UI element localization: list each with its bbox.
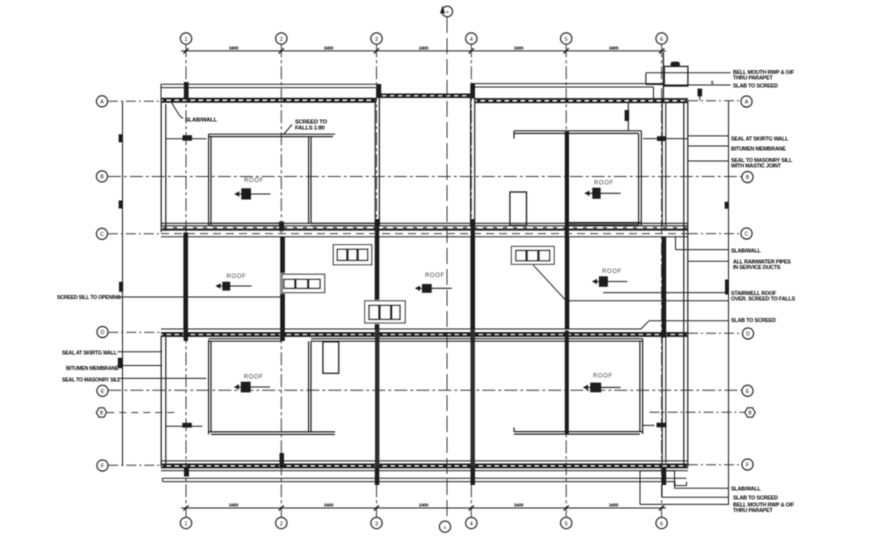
band D step diagonal [641, 321, 649, 329]
grid 2 stub at unit 1 kerb [279, 222, 284, 232]
leader RM1 [675, 237, 677, 250]
svg-text:SLAB/WALL: SLAB/WALL [731, 487, 762, 493]
grid 4 wall stub bottom [471, 468, 476, 485]
row F datum right [688, 464, 742, 466]
leader TR3 [688, 135, 729, 137]
svg-text:3400: 3400 [324, 45, 334, 51]
grid line 4 vertical [470, 44, 472, 517]
dimension tick [659, 48, 664, 53]
grid bubble 2 bottom [276, 517, 287, 528]
row A datum left [108, 100, 161, 102]
band F lower line [161, 470, 688, 472]
svg-text:SLAB TO SCREED: SLAB TO SCREED [733, 84, 778, 90]
leader TR5 [688, 160, 729, 162]
left witness tick [119, 134, 123, 142]
rooflight vent 3 [364, 300, 407, 324]
grid 3 wall stub band C [375, 219, 379, 238]
dimension tick [183, 48, 188, 53]
svg-text:ROOF: ROOF [602, 269, 622, 275]
grid 1 wall stub top [184, 82, 189, 98]
leader L2 [118, 351, 163, 353]
leader BR2 [661, 471, 663, 498]
parapet level marker [698, 89, 703, 97]
band C heavy line [161, 229, 688, 231]
row bubble B right [742, 171, 753, 182]
svg-text:B: B [100, 175, 104, 181]
row bubble C left [96, 228, 107, 239]
svg-text:3: 3 [375, 521, 378, 527]
top parapet right [471, 83, 664, 85]
grid 1 wall middle strip [183, 233, 188, 330]
row bubble B2 right (hex) [745, 408, 755, 417]
row bubble E right [742, 385, 753, 396]
dimension tick [469, 48, 474, 53]
bottom parapet right step [674, 482, 676, 486]
grid 2 wall stub band D [280, 330, 285, 342]
svg-text:SCREED SILL TO OPENING: SCREED SILL TO OPENING [57, 295, 121, 301]
note screed falls leader [284, 125, 293, 135]
unit 4 kerb top edge [209, 338, 282, 340]
unit 1 kerb right edge [308, 137, 310, 224]
grid bubble 5 bottom [561, 517, 572, 528]
rooflight vent 1 [332, 244, 373, 266]
projection leader upper [646, 72, 731, 74]
section marker A top [442, 6, 453, 17]
left witness tick [118, 358, 122, 369]
svg-text:2400: 2400 [419, 503, 429, 509]
roof edge band F [161, 463, 688, 465]
left witness tick [119, 282, 123, 292]
svg-text:SLAB TO SCREED: SLAB TO SCREED [731, 318, 776, 324]
leader RM2 [688, 260, 729, 262]
unit 4 kerb left edge [208, 340, 210, 435]
svg-text:2400: 2400 [419, 45, 429, 51]
right witness tick [725, 280, 729, 295]
svg-text:F: F [101, 464, 104, 470]
unit 2 chimney [510, 192, 527, 225]
svg-text:D: D [101, 330, 105, 336]
grid 6 wall bottom section [661, 337, 663, 464]
svg-text:ROOF: ROOF [425, 273, 445, 279]
svg-text:3400: 3400 [229, 45, 239, 51]
row bubble D left [97, 326, 108, 337]
svg-text:2: 2 [280, 521, 283, 527]
unit 1 kerb bottom edge [209, 222, 284, 224]
grid 3 wall stub bottom [375, 468, 380, 485]
row bubble F right [742, 459, 753, 470]
right witness tick [725, 202, 729, 209]
roof edge band A centre [377, 93, 476, 95]
svg-text:SLAB TO SCREED: SLAB TO SCREED [733, 495, 778, 501]
left wall lower segment [160, 336, 162, 467]
grid 4 wall stub top [470, 84, 475, 99]
unit 2 drop line with tick [627, 103, 629, 131]
grid 2 wall middle strip [280, 237, 285, 329]
svg-text:D: D [746, 332, 750, 338]
roof projection box [664, 66, 688, 86]
svg-text:SLAB/WALL: SLAB/WALL [731, 248, 762, 254]
unit 2 kerb top extension [514, 130, 569, 132]
grid 1 wall stub bottom [184, 468, 189, 477]
bottom parapet [163, 477, 687, 479]
svg-text:ROOF: ROOF [593, 373, 613, 379]
svg-text:6: 6 [660, 37, 663, 43]
svg-text:5: 5 [565, 521, 568, 527]
leader L4 [118, 377, 207, 379]
grid bubble 2 top [276, 33, 287, 44]
row C datum left [108, 233, 161, 235]
leader L1 [118, 296, 282, 298]
grid bubble 1 top [180, 33, 191, 44]
grid line 3 vertical [376, 44, 378, 517]
row A datum right [688, 100, 741, 102]
svg-text:1: 1 [185, 521, 188, 527]
roof edge band D [161, 332, 688, 334]
grid 6 wall stub bottom [662, 468, 667, 486]
grid 6 wall top section [661, 103, 663, 225]
svg-text:3400: 3400 [324, 503, 334, 509]
svg-text:ROOF: ROOF [227, 274, 247, 280]
row D datum right [688, 332, 742, 334]
leader TR4 [688, 145, 729, 147]
grid 6 line above roof [662, 52, 664, 103]
section marker A bottom [439, 521, 450, 532]
row bubble B2 left (hex) [96, 408, 106, 417]
svg-text:6: 6 [660, 521, 663, 527]
dimension tick [564, 505, 569, 510]
note slab-wall top-left leader [172, 103, 184, 119]
left wall upper segment [160, 102, 162, 232]
rooflight vent 4 [510, 245, 555, 265]
grid bubble 6 top [656, 33, 667, 44]
grid 5 wall middle strip [565, 237, 570, 329]
row E datum [108, 389, 741, 391]
band F upper line [161, 460, 688, 462]
svg-text:ROOF: ROOF [594, 181, 614, 187]
grid line 6 vertical [661, 44, 663, 517]
unit 4 kerb right edge [308, 341, 310, 432]
svg-text:ROOF: ROOF [244, 178, 264, 184]
band D upper line [161, 328, 641, 330]
grid bubble 3 bottom [371, 517, 382, 528]
band C lower line [161, 236, 688, 238]
svg-text:SEAL TO MASONRY SILL: SEAL TO MASONRY SILL [62, 377, 122, 383]
left witness tick [119, 201, 123, 209]
dimension tick [374, 48, 379, 53]
grid bubble 3 top [371, 33, 382, 44]
row D datum left [108, 331, 161, 333]
row F datum left [108, 464, 161, 466]
leader BR1 [674, 471, 676, 489]
top dimension line [181, 50, 666, 52]
grid line 5 vertical [565, 44, 567, 517]
svg-text:5: 5 [565, 37, 568, 43]
row bubble F left [97, 460, 108, 471]
right annotation witness line [728, 101, 730, 505]
svg-text:2: 2 [280, 37, 283, 43]
svg-text:E: E [101, 389, 105, 395]
row bubble A left [96, 96, 107, 107]
projection leader lower [664, 84, 730, 86]
svg-text:3400: 3400 [514, 503, 524, 509]
unit 2 kerb bottom edge [569, 222, 642, 224]
dimension tick [564, 48, 569, 53]
section line A vertical [446, 17, 448, 520]
grid 5 wall top section [565, 132, 569, 238]
grid 3 wall bottom section [375, 330, 379, 468]
dimension tick [279, 48, 284, 53]
row bubble E left [97, 385, 108, 396]
svg-text:3400: 3400 [609, 45, 619, 51]
svg-text:4: 4 [470, 521, 473, 527]
svg-text:ROOF: ROOF [244, 375, 264, 381]
band C upper pair [161, 222, 688, 224]
unit 2 kerb top edge [569, 130, 641, 132]
row B datum [108, 176, 742, 178]
leader L3 [118, 365, 163, 367]
row C datum right [688, 233, 741, 235]
svg-text:1: 1 [185, 37, 188, 43]
svg-text:C: C [100, 232, 104, 238]
svg-text:3: 3 [375, 37, 378, 43]
svg-text:BITUMEN MEMBRANE: BITUMEN MEMBRANE [731, 147, 786, 153]
dimension tick [374, 505, 379, 510]
unit 1 kerb top edge [209, 133, 335, 135]
svg-text:SEAL AT SKIRTG WALL: SEAL AT SKIRTG WALL [731, 137, 789, 143]
roof projection side box [645, 73, 647, 85]
bottom kerb top edge long [311, 338, 643, 340]
svg-text:BITUMEN MEMBRANE: BITUMEN MEMBRANE [66, 366, 119, 372]
row bubble A right [741, 96, 752, 107]
grid bubble 4 bottom [466, 517, 477, 528]
svg-text:3400: 3400 [229, 503, 239, 509]
grid 3 wall top section [374, 98, 376, 225]
dimension tick [469, 505, 474, 510]
svg-text:C: C [745, 232, 749, 238]
unit 1 leader with tick [166, 138, 207, 140]
svg-text:4: 4 [470, 37, 473, 43]
grid 6 wall stub band D [662, 329, 666, 338]
grid 5 wall bottom section [565, 331, 569, 434]
vent 4 leader diagonal [533, 265, 566, 301]
unit 1 kerb bottom extension [311, 222, 377, 224]
dimension tick [183, 505, 188, 510]
grid 4 wall middle strip [470, 237, 475, 329]
leader RM3 [603, 292, 729, 294]
svg-text:B: B [746, 175, 750, 181]
grid line 2 vertical [280, 44, 282, 517]
unit 2 kerb right edge [638, 133, 640, 226]
roof edge band A left [161, 98, 377, 100]
bottom dimension line [181, 507, 666, 509]
grid 1 wall stub band D [184, 329, 188, 341]
unit 4 chimney [323, 342, 339, 374]
row B2 datum left [107, 412, 176, 414]
grid bubble 1 bottom [180, 517, 191, 528]
grid 3 wall middle strip [375, 237, 380, 329]
leader BR3 [639, 471, 641, 505]
unit 5 kerb bottom edge [514, 431, 643, 433]
grid line 1 vertical [185, 44, 187, 517]
right wall [683, 101, 685, 465]
svg-text:SEAL AT SKIRTG WALL: SEAL AT SKIRTG WALL [62, 351, 118, 357]
rooflight vent 2 [281, 273, 326, 293]
unit 5 kerb right edge [639, 341, 641, 431]
svg-text:SLAB/WALL: SLAB/WALL [185, 118, 218, 124]
grid bubble 5 top [561, 33, 572, 44]
left annotation witness line [122, 101, 124, 466]
svg-text:A: A [745, 100, 749, 106]
svg-text:A: A [100, 100, 104, 106]
band A step at grid 3 [376, 84, 381, 98]
top parapet left [161, 83, 377, 85]
grid 4 wall stub band C [471, 219, 475, 238]
svg-text:3400: 3400 [514, 45, 524, 51]
svg-text:SCREED TOFALLS 1:80: SCREED TOFALLS 1:80 [295, 120, 328, 132]
band C dashed centre line [161, 233, 688, 235]
grid bubble 6 bottom [656, 517, 667, 528]
svg-text:3400: 3400 [609, 503, 619, 509]
unit 2 right leader with tick [643, 138, 688, 140]
leader RM4 [649, 320, 729, 322]
grid bubble 4 top [466, 33, 477, 44]
row B2 datum right [650, 411, 745, 413]
row bubble C right [741, 228, 752, 239]
dimension tick [659, 505, 664, 510]
grid 4 wall top section [470, 98, 472, 225]
unit 5 notch leader with tick [643, 424, 655, 426]
grid 2 wall stub bottom [280, 453, 285, 468]
row bubble B left [96, 171, 107, 182]
svg-text:E: E [746, 389, 750, 395]
unit 1 kerb left edge [208, 134, 210, 225]
dimension tick [279, 505, 284, 510]
roof edge band A right [475, 98, 688, 100]
unit 4 leader with tick [166, 425, 203, 427]
grid 6 wall middle strip [662, 237, 667, 329]
unit 4 kerb bottom edge [209, 431, 335, 433]
svg-text:F: F [746, 463, 749, 469]
row bubble D right [742, 328, 753, 339]
grid 4 wall bottom section [471, 330, 475, 468]
